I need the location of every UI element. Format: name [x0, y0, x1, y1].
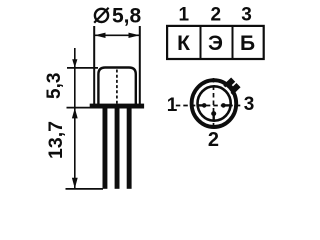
arrow down at body top — [72, 59, 77, 67]
pin 1 dot — [202, 103, 207, 108]
vertical dimension line — [74, 48, 76, 189]
extension line left of Ø5,8 — [93, 26, 95, 105]
extension line right of Ø5,8 — [139, 26, 141, 105]
extension line at flange bottom (5,3 / 13,7) — [67, 107, 91, 109]
pin 3 dot — [221, 103, 226, 108]
key tab on package outline — [224, 80, 238, 94]
lead 1 — [103, 108, 108, 188]
svg-text:2: 2 — [211, 4, 222, 25]
flange — [90, 104, 144, 109]
svg-text:5,8: 5,8 — [112, 5, 142, 28]
svg-text:1: 1 — [179, 4, 190, 25]
pin 1 tick — [197, 104, 204, 106]
table divider 1 — [200, 26, 202, 59]
transistor body outline — [98, 68, 135, 105]
pinout table box — [167, 26, 264, 59]
svg-text:5,3: 5,3 — [44, 73, 65, 99]
svg-text:К: К — [177, 32, 190, 55]
bottom view inner circle — [198, 86, 231, 120]
pin 2 dot — [211, 111, 216, 116]
dimension label Ø 5,8 — [94, 5, 141, 28]
lead 2 — [115, 108, 120, 188]
svg-text:1: 1 — [167, 95, 178, 116]
body dashed centerline — [116, 70, 118, 104]
vertical dashed centerline — [213, 78, 215, 130]
horizontal dashed centerline — [176, 105, 243, 107]
pin 2 tick — [212, 114, 214, 121]
arrow up at flange bottom — [72, 108, 78, 118]
lead 3 — [127, 108, 132, 188]
bottom view outer circle — [192, 80, 237, 127]
extension line at lead ends (13,7) — [66, 188, 104, 190]
svg-text:3: 3 — [241, 4, 252, 25]
arrow down at lead ends — [72, 178, 78, 189]
pin 3 tick — [224, 104, 231, 106]
extension line at body top (5,3) — [67, 67, 98, 69]
table divider 2 — [232, 26, 234, 59]
svg-text:3: 3 — [244, 94, 255, 115]
dimension line Ø5,8 with arrows — [94, 33, 139, 38]
svg-text:13,7: 13,7 — [45, 121, 67, 159]
svg-text:Э: Э — [208, 32, 223, 55]
svg-text:2: 2 — [208, 129, 219, 151]
svg-text:Б: Б — [240, 32, 255, 55]
